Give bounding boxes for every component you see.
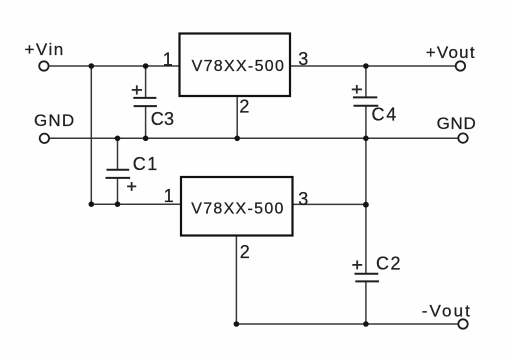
capacitor C2: [352, 253, 402, 281]
regulator U1 V78XX-500: [180, 34, 291, 97]
svg-text:1: 1: [163, 49, 173, 69]
wire pin3 rail lower box: [293, 203, 366, 205]
wire GND rail: [50, 137, 458, 139]
regulator U2 V78XX-500: [181, 177, 293, 236]
wire bottom rail: [236, 323, 457, 325]
wire pin1 rail lower box: [91, 203, 181, 205]
wire right vertical column: [365, 66, 367, 97]
svg-text:C2: C2: [376, 253, 402, 273]
svg-text:1: 1: [164, 186, 174, 206]
svg-text:3: 3: [298, 189, 308, 209]
svg-text:GND: GND: [437, 114, 477, 133]
wire C1 vertical: [117, 138, 119, 169]
svg-text:V78XX-500: V78XX-500: [192, 58, 286, 75]
capacitor C3: [132, 85, 175, 129]
terminal -Vout: [458, 319, 467, 328]
terminal GND left: [40, 134, 49, 143]
capacitor C4: [352, 85, 398, 124]
wire C3 vertical: [145, 66, 147, 97]
terminal +Vin: [39, 61, 48, 70]
svg-text:2: 2: [240, 242, 250, 262]
svg-text:+Vout: +Vout: [426, 43, 476, 62]
svg-text:-Vout: -Vout: [422, 301, 472, 320]
wire top rail left: [49, 65, 179, 67]
terminal GND right: [458, 133, 467, 142]
capacitor C1: [106, 154, 159, 191]
wire left vertical Vin to pin1: [90, 66, 92, 204]
node junction dots: [89, 63, 369, 327]
svg-text:GND: GND: [34, 111, 75, 130]
wire pin2 upper box: [236, 97, 238, 139]
wire pin2 lower box: [235, 236, 237, 324]
svg-text:C3: C3: [151, 109, 175, 129]
svg-text:V78XX-500: V78XX-500: [191, 201, 285, 218]
svg-text:C4: C4: [372, 104, 399, 124]
terminal +Vout: [456, 61, 465, 70]
svg-text:2: 2: [239, 97, 249, 117]
svg-text:C1: C1: [133, 154, 159, 174]
svg-text:3: 3: [298, 49, 308, 69]
wire top rail right: [291, 65, 456, 67]
svg-text:+Vin: +Vin: [25, 40, 65, 59]
